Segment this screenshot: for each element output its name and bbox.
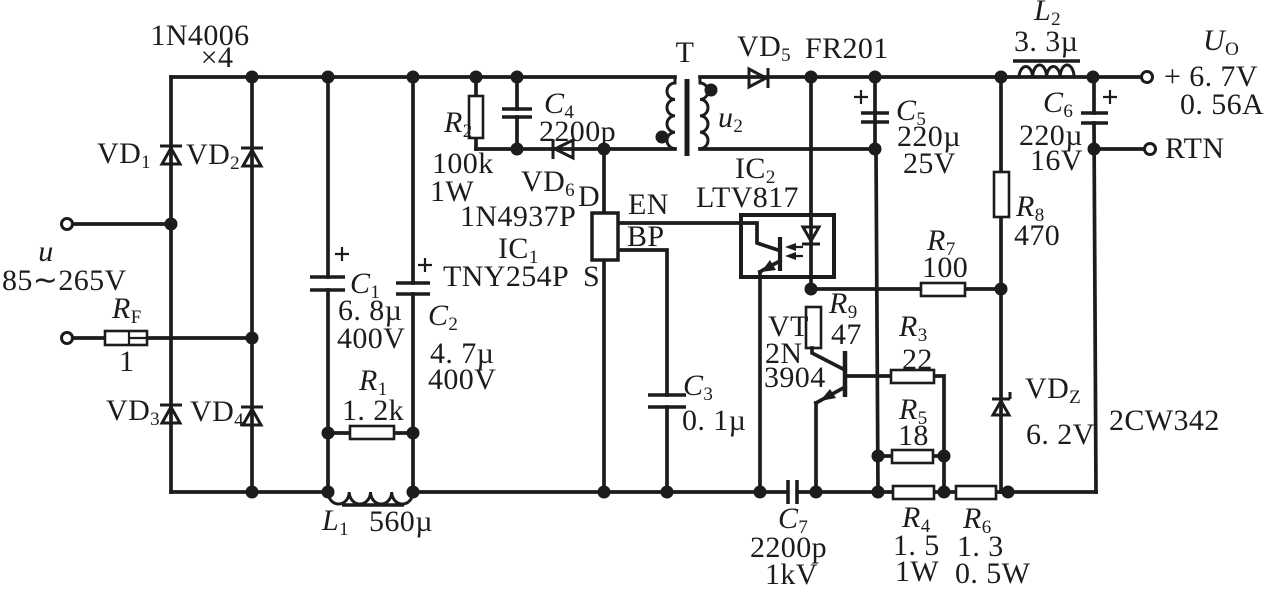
- wire: drain D pin line: [602, 149, 606, 213]
- wire: R2 branch vertical: [474, 77, 478, 149]
- node: output rail / LED anode: [805, 71, 818, 84]
- label: input u 85~265V: [2, 235, 127, 297]
- op-amp / IC1 TNY254P body: [443, 213, 618, 293]
- svg-text:S: S: [583, 260, 600, 293]
- wire: RTN stub: [1094, 147, 1145, 151]
- wire: C6 / RTN vertical: [1094, 77, 1096, 492]
- inductor L1 560u: [321, 492, 433, 540]
- wire: R3 right drop: [934, 376, 944, 492]
- node: drain node: [598, 143, 611, 156]
- node: bottom rail / L1 left: [322, 486, 335, 499]
- wire: secondary bottom line: [700, 147, 878, 151]
- wire: C5 branch and feedback vertical: [873, 77, 877, 149]
- svg-text:400V: 400V: [428, 363, 496, 396]
- node: snubber / C4 bottom: [511, 143, 524, 156]
- node: output rail / R8: [995, 71, 1008, 84]
- diode VD5 FR201 (pointing right): [737, 30, 889, 88]
- svg-text:1. 2k: 1. 2k: [342, 394, 404, 427]
- node: top rail / R2: [470, 71, 483, 84]
- node: R5 left: [872, 450, 885, 463]
- svg-text:RTN: RTN: [1165, 132, 1224, 165]
- svg-text:LTV817: LTV817: [696, 181, 799, 214]
- svg-text:1W: 1W: [895, 555, 939, 588]
- terminal: AC input upper: [62, 219, 73, 230]
- diode VD1 (1N4006): [160, 146, 182, 164]
- svg-text:0. 56A: 0. 56A: [1180, 88, 1264, 121]
- resistor R7 100: [921, 224, 968, 296]
- capacitor C1 6.8u 400V (electrolytic): [310, 247, 405, 355]
- resistor R1 1.2k: [342, 364, 404, 439]
- node: output rail / C6: [1087, 71, 1100, 84]
- node: C6 bottom / RTN: [1088, 143, 1101, 156]
- resistor R2 100k 1W: [430, 96, 494, 208]
- terminal: AC input lower: [62, 333, 73, 344]
- node: bottom rail / R6-VDz: [1002, 486, 1015, 499]
- resistor R8 470: [994, 172, 1060, 252]
- wire: primary top rail: [171, 75, 675, 79]
- label: 1N4006 x4 bridge: [150, 19, 249, 74]
- node: bottom rail / VD4: [246, 486, 259, 499]
- resistor R6 1.3 0.5W (series in return rail): [955, 486, 1031, 590]
- node: top rail / C4: [511, 71, 524, 84]
- wire: input line upper: [72, 222, 171, 226]
- wire: BP pin line to C3: [618, 250, 667, 492]
- node: R1 right: [407, 427, 420, 440]
- transformer T secondary winding u2: [700, 77, 743, 149]
- svg-text:2200p: 2200p: [539, 115, 616, 148]
- node: bottom rail / opto emitter: [754, 486, 767, 499]
- node: top rail / C2: [407, 71, 420, 84]
- transformer primary phasing dot: [656, 131, 669, 144]
- node: LED cathode / R7 / R9: [805, 283, 818, 296]
- node: secondary return / C5 bottom: [869, 143, 882, 156]
- wire: optocoupler emitter vertical: [758, 272, 762, 492]
- svg-text:16V: 16V: [1030, 144, 1083, 177]
- transformer T core: [685, 79, 690, 156]
- svg-text:22: 22: [902, 343, 933, 376]
- capacitor C7 2200p 1kV (Y-cap in return rail): [750, 480, 827, 591]
- wire: VT emitter vertical: [814, 403, 818, 492]
- wire: LED cathode / R7 / R9 node link: [811, 287, 1001, 291]
- resistor RF (fusible, 1 ohm): [105, 292, 147, 378]
- svg-text:47: 47: [831, 318, 862, 351]
- wire: second bridge vertical (VD2/VD4 branch): [250, 77, 254, 492]
- svg-text:85∼265V: 85∼265V: [2, 264, 127, 297]
- svg-text:400V: 400V: [337, 322, 405, 355]
- transformer T primary winding: [667, 77, 675, 149]
- node: bottom rail / C3: [661, 486, 674, 499]
- resistor R5 18: [892, 393, 933, 463]
- svg-text:2CW342: 2CW342: [1109, 404, 1220, 437]
- svg-text:560µ: 560µ: [369, 505, 433, 538]
- terminal: RTN output: [1145, 144, 1156, 155]
- wire: bottom rail right (secondary return): [799, 490, 1096, 494]
- node: R5 right: [938, 450, 951, 463]
- svg-text:18: 18: [898, 419, 929, 452]
- node: top rail / VD2: [246, 71, 259, 84]
- inductor L2 3.3u: [1013, 0, 1080, 77]
- wire: bottom rail left (primary ground): [171, 490, 786, 494]
- node: bottom rail / R5-R4 left: [872, 486, 885, 499]
- node: bottom rail / R4-R6: [938, 486, 951, 499]
- svg-text:FR201: FR201: [805, 32, 889, 65]
- label: output Uo +6.7V 0.56A: [1164, 24, 1264, 121]
- node: bottom rail / S pin: [598, 486, 611, 499]
- svg-text:0. 1µ: 0. 1µ: [682, 404, 746, 437]
- svg-text:1kV: 1kV: [765, 558, 818, 591]
- node: output rail / C5: [869, 71, 882, 84]
- resistor R4 1.5 1W (series in return rail): [893, 486, 940, 588]
- wire: R8/VDz vertical: [999, 77, 1003, 492]
- wire: C4 branch vertical: [515, 77, 519, 149]
- svg-text:6. 2V: 6. 2V: [1026, 418, 1095, 451]
- transistor VT 2N3904: [764, 310, 845, 403]
- diode VD2 (1N4006): [241, 148, 263, 166]
- diode VD3 (1N4006): [160, 405, 182, 423]
- wire: snubber line to drain node: [476, 147, 675, 151]
- wire: input line lower through RF: [72, 336, 252, 340]
- wire: left bridge vertical (VD1/VD3 branch): [169, 77, 173, 492]
- terminal: +6.7V output: [1142, 72, 1153, 83]
- optocoupler light arrows: [785, 243, 803, 260]
- wire: C2 branch vertical: [411, 77, 415, 492]
- wire: secondary top rail to output: [700, 75, 1142, 79]
- wire: R5 link: [878, 454, 944, 458]
- wire: VT base line to R3: [845, 374, 891, 378]
- diode VD6 1N4937P (clamp, pointing left): [460, 139, 576, 233]
- capacitor C2 4.7u 400V (electrolytic): [396, 258, 496, 396]
- svg-text:1N4937P: 1N4937P: [460, 200, 576, 233]
- capacitor C5 220u 25V (electrolytic): [854, 90, 961, 180]
- svg-text:T: T: [676, 36, 695, 69]
- svg-text:470: 470: [1014, 219, 1060, 252]
- resistor R3 22: [891, 310, 934, 383]
- svg-text:3904: 3904: [764, 361, 826, 394]
- svg-text:TNY254P: TNY254P: [443, 260, 569, 293]
- svg-text:25V: 25V: [903, 147, 956, 180]
- wire: optocoupler LED anode vertical: [809, 77, 813, 289]
- capacitor C4 2200p: [502, 87, 616, 148]
- node: RF/VD2-VD4 junction: [246, 332, 259, 345]
- node: R7 / R8 / VDz: [995, 283, 1008, 296]
- transformer secondary phasing dot: [705, 84, 718, 97]
- node: top rail / C1: [322, 71, 335, 84]
- svg-text:D: D: [578, 180, 600, 213]
- resistor R9 47: [806, 287, 862, 351]
- op-amp / IC2 LTV817 optocoupler box: [696, 152, 834, 277]
- svg-text:×4: ×4: [201, 41, 234, 74]
- diode VD4 (1N4006): [241, 407, 263, 425]
- svg-text:100: 100: [922, 251, 968, 284]
- svg-text:BP: BP: [627, 220, 665, 253]
- node: R1 left: [322, 427, 335, 440]
- optocoupler LED: [802, 227, 820, 244]
- svg-text:3. 3µ: 3. 3µ: [1014, 25, 1078, 58]
- wire: C1 branch vertical: [326, 77, 330, 492]
- capacitor C6 220u 16V (electrolytic): [1019, 86, 1117, 177]
- wire: EN pin line: [618, 221, 741, 225]
- node: input/VD1-VD3 junction: [165, 218, 178, 231]
- svg-text:0. 5W: 0. 5W: [955, 557, 1031, 590]
- capacitor C3 0.1u: [648, 369, 746, 437]
- wire: source S pin line: [602, 260, 606, 492]
- node: bottom rail / VT emitter: [810, 486, 823, 499]
- zener diode VDz 6.2V 2CW342: [992, 372, 1220, 451]
- wire: R1 damping link: [328, 431, 413, 435]
- svg-text:EN: EN: [628, 188, 669, 221]
- svg-text:1: 1: [119, 345, 134, 378]
- node: bottom rail / L1 right: [407, 486, 420, 499]
- optocoupler phototransistor: [741, 223, 780, 272]
